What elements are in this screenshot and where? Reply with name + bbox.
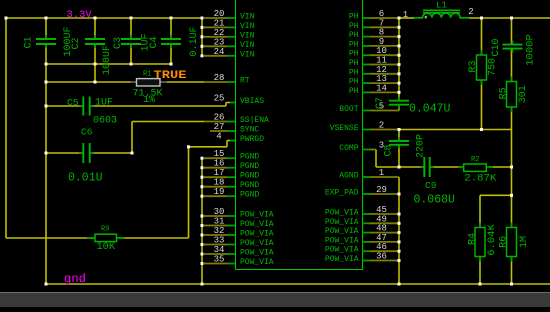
svg-text:1%: 1%	[143, 95, 155, 106]
svg-text:PH: PH	[349, 68, 359, 77]
svg-text:1M: 1M	[519, 236, 530, 248]
svg-text:PH: PH	[349, 78, 359, 87]
svg-text:34: 34	[214, 245, 225, 255]
svg-text:VIN: VIN	[240, 22, 255, 31]
svg-text:VSENSE: VSENSE	[330, 124, 359, 133]
svg-text:23: 23	[214, 37, 225, 47]
svg-text:R2: R2	[471, 156, 479, 164]
svg-text:R6: R6	[499, 236, 510, 248]
svg-text:301: 301	[518, 85, 529, 103]
svg-text:POW_VIA: POW_VIA	[325, 218, 359, 227]
svg-text:35: 35	[214, 255, 225, 265]
svg-text:PGND: PGND	[240, 172, 259, 181]
svg-text:19: 19	[214, 187, 225, 197]
svg-text:C3: C3	[113, 37, 124, 49]
svg-text:25: 25	[214, 94, 225, 104]
svg-text:R3: R3	[468, 60, 479, 72]
svg-text:4: 4	[216, 132, 221, 142]
svg-text:18: 18	[214, 178, 225, 188]
svg-text:C7: C7	[375, 97, 386, 109]
svg-text:1UF: 1UF	[95, 98, 113, 109]
svg-text:POW_VIA: POW_VIA	[240, 211, 274, 220]
svg-text:POW_VIA: POW_VIA	[325, 209, 359, 218]
svg-text:VBIAS: VBIAS	[240, 97, 264, 106]
svg-text:0.01U: 0.01U	[68, 172, 103, 185]
svg-text:1: 1	[403, 10, 408, 20]
svg-text:C10: C10	[491, 38, 502, 56]
svg-text:27: 27	[214, 122, 225, 132]
svg-text:C2: C2	[71, 37, 82, 49]
svg-text:VIN: VIN	[240, 13, 255, 22]
svg-text:VIN: VIN	[240, 41, 255, 50]
svg-text:220P: 220P	[416, 134, 427, 158]
svg-text:1: 1	[379, 168, 384, 178]
svg-text:32: 32	[214, 226, 225, 236]
svg-text:15: 15	[214, 149, 225, 159]
svg-text:POW_VIA: POW_VIA	[325, 236, 359, 245]
svg-text:R4: R4	[468, 233, 479, 245]
svg-text:2: 2	[468, 7, 473, 17]
svg-text:29: 29	[376, 185, 387, 195]
svg-text:POW_VIA: POW_VIA	[240, 249, 274, 258]
svg-text:PH: PH	[349, 31, 359, 40]
svg-text:VIN: VIN	[240, 50, 255, 59]
svg-text:R1: R1	[143, 71, 151, 79]
svg-text:22: 22	[214, 28, 225, 38]
svg-text:C8: C8	[384, 144, 395, 156]
svg-text:L1: L1	[436, 1, 447, 11]
svg-text:PH: PH	[349, 22, 359, 31]
svg-text:36: 36	[376, 252, 387, 262]
svg-text:POW_VIA: POW_VIA	[240, 220, 274, 229]
svg-text:3.3V: 3.3V	[67, 9, 93, 21]
svg-text:17: 17	[214, 168, 225, 178]
svg-text:28: 28	[214, 73, 225, 83]
svg-text:C1: C1	[24, 36, 35, 48]
svg-text:750: 750	[488, 58, 499, 76]
svg-text:TRUE: TRUE	[154, 70, 187, 82]
svg-text:10K: 10K	[97, 242, 116, 253]
svg-text:PH: PH	[349, 40, 359, 49]
svg-text:0.1UF: 0.1UF	[189, 26, 200, 56]
svg-text:POW_VIA: POW_VIA	[325, 246, 359, 255]
svg-text:PH: PH	[349, 87, 359, 96]
svg-text:EXP_PAD: EXP_PAD	[325, 189, 359, 198]
svg-text:SS|ENA: SS|ENA	[240, 116, 269, 125]
svg-text:POW_VIA: POW_VIA	[240, 258, 274, 267]
svg-text:gnd: gnd	[64, 272, 86, 286]
svg-text:POW_VIA: POW_VIA	[240, 239, 274, 248]
svg-text:POW_VIA: POW_VIA	[325, 255, 359, 264]
svg-text:PH: PH	[349, 50, 359, 59]
svg-text:PWRGD: PWRGD	[240, 135, 264, 144]
svg-text:2: 2	[379, 121, 384, 131]
svg-text:VIN: VIN	[240, 31, 255, 40]
svg-text:6.04K: 6.04K	[486, 224, 498, 256]
svg-text:PGND: PGND	[240, 153, 259, 162]
svg-text:16: 16	[214, 159, 225, 169]
svg-text:PH: PH	[349, 59, 359, 68]
svg-text:C5: C5	[67, 97, 79, 108]
svg-text:30: 30	[214, 207, 225, 217]
svg-text:0.068U: 0.068U	[414, 194, 456, 207]
svg-text:PH: PH	[349, 13, 359, 22]
svg-text:24: 24	[214, 47, 225, 57]
svg-text:PGND: PGND	[240, 191, 259, 200]
svg-text:33: 33	[214, 236, 225, 246]
svg-text:R5: R5	[498, 87, 509, 99]
svg-text:R9: R9	[101, 226, 109, 234]
svg-text:POW_VIA: POW_VIA	[325, 227, 359, 236]
svg-text:0603: 0603	[93, 116, 117, 127]
svg-text:AGND: AGND	[339, 172, 358, 181]
svg-text:31: 31	[214, 217, 225, 227]
svg-text:POW_VIA: POW_VIA	[240, 230, 274, 239]
svg-text:C4: C4	[149, 36, 160, 48]
svg-text:100UF: 100UF	[102, 45, 113, 75]
svg-text:BOOT: BOOT	[339, 105, 358, 114]
svg-text:26: 26	[214, 113, 225, 123]
svg-text:1000P: 1000P	[525, 34, 537, 66]
svg-text:0.047U: 0.047U	[409, 103, 451, 116]
svg-text:C6: C6	[81, 127, 93, 138]
svg-text:SYNC: SYNC	[240, 126, 259, 135]
svg-text:14: 14	[376, 83, 387, 93]
svg-text:C9: C9	[425, 180, 437, 191]
svg-text:PGND: PGND	[240, 162, 259, 171]
svg-text:2.87K: 2.87K	[464, 173, 497, 185]
svg-text:COMP: COMP	[339, 144, 358, 153]
svg-text:RT: RT	[240, 77, 250, 86]
svg-text:PGND: PGND	[240, 181, 259, 190]
